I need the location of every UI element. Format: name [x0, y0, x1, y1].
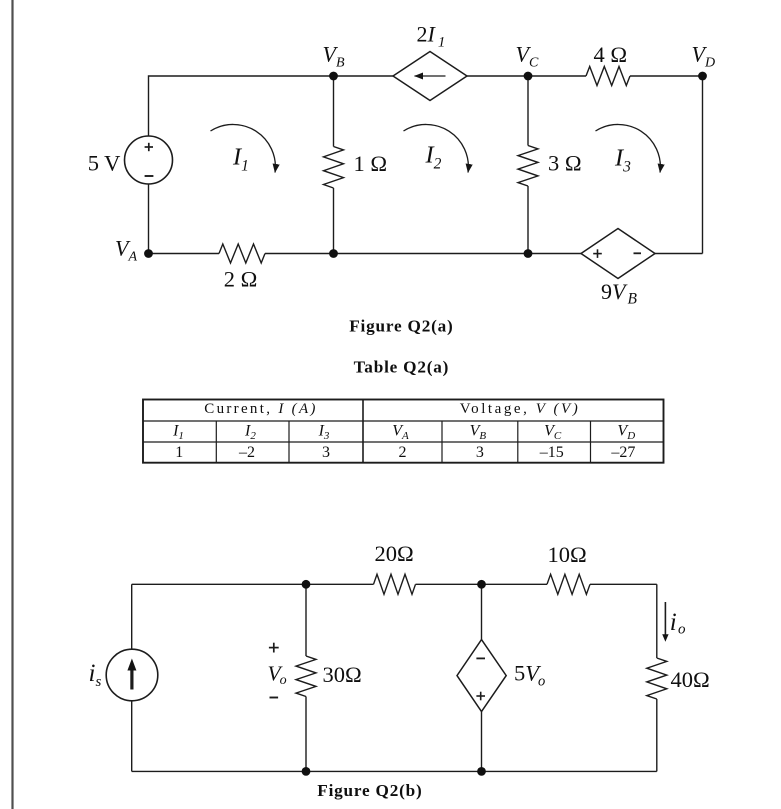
wire: right vertical upper lead [656, 584, 658, 658]
svg-text:2 Ω: 2 Ω [224, 267, 258, 292]
wire: left vertical below is source [131, 701, 133, 772]
junction dot top of 5Vo [477, 580, 486, 589]
wire: 2-ohm resistor to 9VB left tip [265, 253, 581, 255]
node V_D (junction dot) [698, 72, 707, 81]
svg-text:–2: –2 [238, 444, 255, 461]
svg-text:VA: VA [392, 422, 409, 442]
svg-text:–27: –27 [610, 444, 635, 461]
junction dot bottom of 1-ohm [329, 249, 338, 258]
wire: Q2(a) top wire, 5V top to V_B [149, 76, 334, 136]
polarity - of 5V source [145, 175, 154, 177]
table outer border [143, 400, 664, 463]
node V_B (junction dot) [329, 72, 338, 81]
svg-text:VD: VD [692, 42, 716, 71]
wire: Q2(b) top wire left segment [132, 583, 374, 585]
resistor 4Ω (horizontal, top right) [586, 67, 630, 86]
junction dot bottom of 30-ohm [302, 767, 311, 776]
svg-text:VB: VB [323, 42, 345, 71]
table column line VC/VD [590, 421, 592, 463]
svg-text:VC: VC [516, 42, 539, 71]
svg-text:–15: –15 [539, 444, 564, 461]
svg-text:30Ω: 30Ω [323, 662, 362, 687]
wire: 30-ohm branch upper lead [305, 584, 307, 656]
wire: 2I1 right tip to V_C [467, 75, 528, 77]
svg-text:Current, I (A): Current, I (A) [204, 401, 317, 417]
svg-text:3: 3 [476, 444, 484, 461]
resistor 30Ω (vertical) [296, 656, 316, 697]
wire: 20-ohm to 10-ohm [416, 583, 548, 585]
svg-text:1 Ω: 1 Ω [354, 151, 388, 176]
wire: 9VB right tip to bottom right corner [655, 253, 703, 255]
svg-text:Voltage, V (V): Voltage, V (V) [460, 401, 581, 417]
voltage source 5V (circle) [125, 136, 173, 184]
svg-text:VA: VA [115, 236, 137, 265]
polarity + of 9VB [593, 249, 602, 258]
resistor 10Ω (horizontal) [547, 574, 590, 594]
wire: 5V bottom to V_A [148, 184, 150, 253]
svg-text:3 Ω: 3 Ω [548, 151, 582, 176]
junction dot top of 30-ohm [302, 580, 311, 589]
wire: 1-ohm branch lower lead [333, 188, 335, 254]
resistor R 1Ω (vertical) [324, 147, 344, 189]
svg-text:5 V: 5 V [88, 150, 121, 175]
svg-text:40Ω: 40Ω [671, 667, 710, 692]
polarity + of Vo (left of 30-ohm) [269, 643, 279, 653]
polarity + of 5V source [145, 143, 153, 151]
svg-text:I2: I2 [425, 142, 442, 173]
svg-text:VC: VC [544, 422, 562, 442]
wire: right vertical V_D down to bottom corner [702, 76, 704, 254]
polarity - of Vo [270, 697, 279, 699]
svg-text:I3: I3 [614, 145, 631, 176]
wire: V_C to 4-ohm resistor [528, 75, 586, 77]
mesh arrow I3 [596, 124, 661, 172]
svg-text:9VB: 9VB [601, 279, 637, 308]
svg-text:io: io [670, 609, 686, 638]
svg-text:4 Ω: 4 Ω [594, 42, 628, 67]
wire: V_B to 2I1 source left tip [334, 75, 394, 77]
table row line 2 [143, 441, 664, 443]
resistor 40Ω (vertical) [647, 658, 667, 699]
junction dot bottom of 5Vo [477, 767, 486, 776]
table column line VB/VC [517, 421, 519, 463]
wire: right vertical lower lead [656, 699, 658, 771]
svg-text:1: 1 [175, 444, 183, 461]
wire: 3-ohm branch lower lead [527, 186, 529, 254]
wire: 3-ohm branch upper lead [527, 76, 529, 146]
svg-text:20Ω: 20Ω [375, 541, 414, 566]
resistor 20Ω (horizontal) [374, 574, 416, 594]
svg-text:Figure Q2(b): Figure Q2(b) [317, 781, 422, 800]
table column line I1/I2 [215, 421, 217, 463]
svg-text:I1: I1 [172, 422, 184, 442]
table column line I2/I3 [288, 421, 290, 463]
node V_C (junction dot) [524, 72, 533, 81]
dependent voltage source 9VB (diamond) [581, 229, 655, 279]
table column line Current/Voltage [362, 400, 364, 463]
mesh arrow I1 [211, 124, 276, 172]
polarity + of 5Vo (bottom) [476, 692, 485, 701]
resistor 3Ω (vertical) [518, 146, 538, 187]
svg-text:I1: I1 [232, 144, 249, 175]
wire: 30-ohm branch lower lead [305, 697, 307, 772]
wire: 4-ohm resistor to V_D [630, 75, 703, 77]
current source is (circle) [106, 649, 158, 701]
svg-text:2: 2 [399, 444, 407, 461]
svg-text:VB: VB [470, 422, 487, 442]
dependent current source 2I1 (diamond) [393, 52, 467, 101]
svg-text:Figure Q2(a): Figure Q2(a) [349, 317, 453, 336]
arrow i_o (points down) [664, 602, 666, 637]
arrow inside 2I1 (points left) [415, 75, 446, 77]
wire: 10-ohm to top right corner [590, 583, 657, 585]
junction dot bottom of 3-ohm [524, 249, 533, 258]
svg-text:is: is [89, 660, 102, 690]
svg-text:3: 3 [322, 444, 330, 461]
table row line 1 [143, 420, 664, 422]
dependent voltage source 5Vo (diamond) [457, 640, 506, 712]
svg-text:Vo: Vo [268, 662, 287, 689]
wire: 1-ohm branch upper lead [333, 76, 335, 147]
wire: left vertical above is source [131, 584, 133, 649]
svg-text:VD: VD [617, 422, 635, 442]
page margin rule (left) [11, 0, 13, 809]
polarity - of 5Vo (top) [476, 657, 485, 659]
wire: 5Vo branch upper lead [481, 584, 483, 639]
svg-text:I3: I3 [318, 422, 330, 442]
svg-text:2I1: 2I1 [417, 22, 446, 51]
svg-text:5Vo: 5Vo [514, 661, 545, 690]
svg-text:10Ω: 10Ω [548, 542, 587, 567]
table column line VA/VB [441, 421, 443, 463]
node V_A (junction dot) [144, 249, 153, 258]
wire: V_A to 2-ohm resistor [149, 253, 220, 255]
wire: 5Vo branch lower lead [481, 712, 483, 772]
svg-text:Table Q2(a): Table Q2(a) [354, 357, 450, 376]
wire: Q2(b) bottom wire [132, 770, 657, 772]
svg-text:I2: I2 [244, 422, 256, 442]
polarity - of 9VB [634, 252, 642, 254]
arrow inside is source (points up) [130, 668, 133, 690]
mesh arrow I2 [404, 124, 469, 172]
resistor 2Ω (horizontal, bottom) [219, 244, 265, 263]
